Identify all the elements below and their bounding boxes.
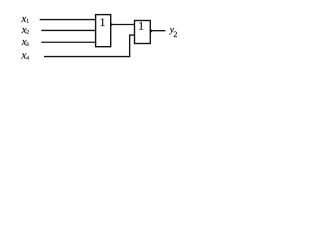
svg-text:4: 4 <box>26 56 29 62</box>
wire x2 to U1 <box>41 29 95 31</box>
svg-text:2: 2 <box>26 30 29 36</box>
wire U1 output to U2 <box>111 24 135 26</box>
junction nub at U2 output pin <box>150 30 152 33</box>
node x4 label <box>21 49 30 61</box>
node x3 label <box>21 36 29 48</box>
wire x1 to U1 <box>40 19 96 21</box>
or-gate U1 box <box>96 15 111 47</box>
svg-text:3: 3 <box>26 42 29 48</box>
wire U2 output to y2 <box>150 30 165 32</box>
node x1 label <box>21 13 30 25</box>
svg-text:1: 1 <box>138 20 144 32</box>
node y2 label <box>169 26 178 40</box>
svg-text:1: 1 <box>100 17 106 29</box>
or-gate U2 box <box>135 21 151 44</box>
wire x4 to U2 (bottom run, riser, jog into U2) <box>44 35 135 57</box>
wire x3 to U1 <box>41 41 95 43</box>
svg-text:2: 2 <box>173 30 177 39</box>
node x2 label <box>21 24 29 36</box>
junction nub at U1 output pin <box>111 23 113 25</box>
